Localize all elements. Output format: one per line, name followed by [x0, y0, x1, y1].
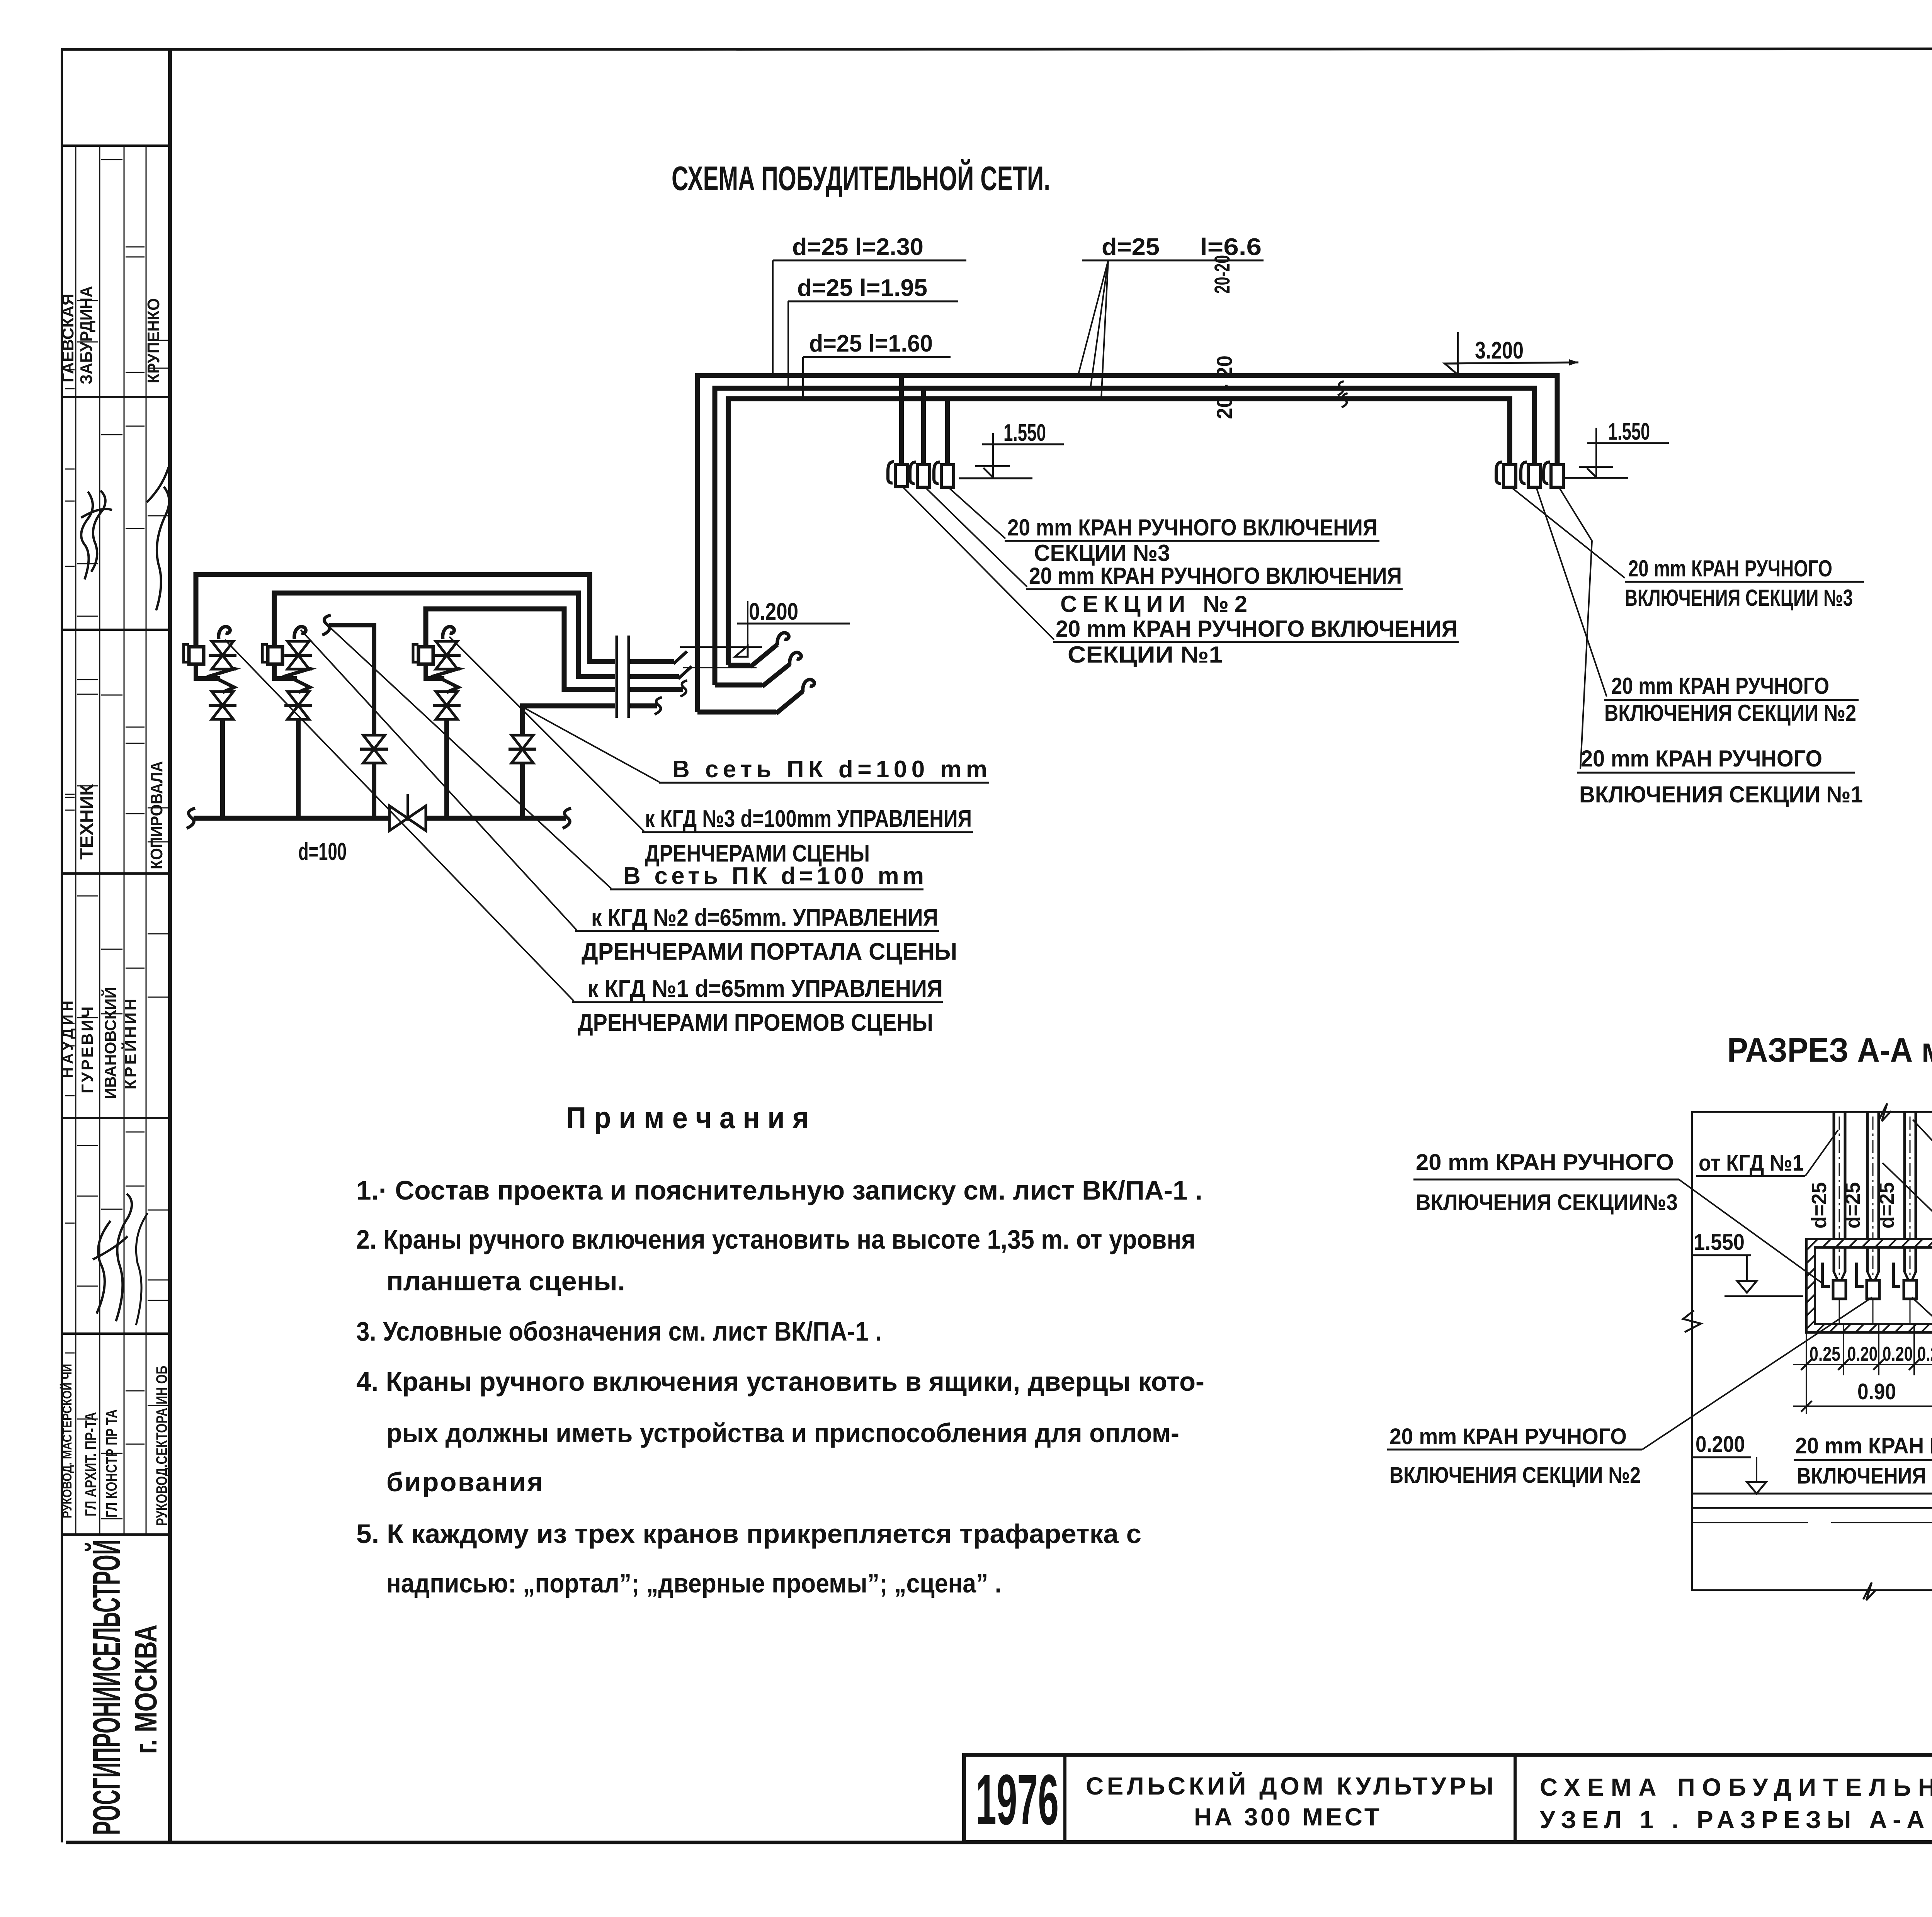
manifold main pipe d=100: [194, 816, 566, 821]
svg-text:ВКЛЮЧЕНИЯ СЕКЦИИ №3: ВКЛЮЧЕНИЯ СЕКЦИИ №3: [1625, 585, 1853, 611]
assembly 3 lower valve: [433, 692, 461, 719]
pipe hook end V2: [715, 683, 762, 688]
pipe A end break tick: [673, 651, 687, 664]
assembly 2 spring zigzag: [287, 666, 310, 692]
svg-text:1.550: 1.550: [1608, 418, 1650, 445]
flange joint line 1: [616, 636, 618, 718]
bottom border line: [66, 1841, 1932, 1844]
svg-text:планшета сцены.: планшета сцены.: [386, 1266, 625, 1296]
pipe C end squiggle: [680, 680, 687, 697]
svg-text:СЕКЦИИ №3: СЕКЦИИ №3: [1034, 540, 1170, 566]
stamp inner column lines: [75, 146, 77, 1535]
svg-text:ЗАБУРДИНА: ЗАБУРДИНА: [77, 286, 96, 384]
title block dividers: [1063, 1755, 1066, 1842]
svg-text:d=25 l=2.30: d=25 l=2.30: [792, 234, 923, 260]
svg-text:ВКЛЮЧЕНИЯ СЕКЦИИ №2: ВКЛЮЧЕНИЯ СЕКЦИИ №2: [1389, 1463, 1641, 1488]
svg-text:СЕКЦИИ №2: СЕКЦИИ №2: [1060, 591, 1247, 617]
manual valve box 2R: [1521, 462, 1541, 487]
svg-text:1976: 1976: [976, 1760, 1059, 1840]
svg-text:к КГД №3 d=100mm УПРАВЛЕНИЯ: к КГД №3 d=100mm УПРАВЛЕНИЯ: [645, 806, 972, 832]
svg-text:1.· Состав проекта и поясни: 1.· Состав проекта и пояснительную запис…: [356, 1175, 1202, 1205]
svg-text:3. Условные обозначения см.: 3. Условные обозначения см. лист ВК/ПА-1…: [356, 1316, 882, 1346]
stamp row dividers: [62, 144, 170, 147]
assembly 3 top curl: [443, 627, 454, 639]
svg-text:СХЕМА ПОБУДИТЕЛЬНОЙ СЕТИ: СХЕМА ПОБУДИТЕЛЬНОЙ СЕТИ: [1540, 1773, 1932, 1801]
svg-text:d=25: d=25: [1875, 1182, 1898, 1229]
middle riser squiggle end: [322, 615, 331, 635]
leader from label to box: [1679, 1179, 1821, 1283]
svg-text:20 mm КРАН РУЧНОГО: 20 mm КРАН РУЧНОГО: [1628, 556, 1832, 581]
assembly 2: drop pipe and fitting box: [268, 647, 282, 664]
leader box2R to label R2: [1536, 488, 1607, 697]
drop pipe 1: [899, 376, 904, 464]
svg-text:20 mm КРАН РУЧНОГО ВКЛЮЧЕНИ: 20 mm КРАН РУЧНОГО ВКЛЮЧЕНИЯ: [1029, 563, 1402, 589]
svg-text:ГЛ АРХИТ. ПР-ТА: ГЛ АРХИТ. ПР-ТА: [82, 1412, 99, 1516]
leader sekcii 2: [1642, 1297, 1872, 1450]
svg-text:0.90: 0.90: [1857, 1379, 1896, 1404]
svg-text:КОПИРОВАЛА: КОПИРОВАЛА: [147, 761, 166, 869]
pipe B to flange: [274, 593, 615, 676]
manual valve box 1: [888, 462, 908, 487]
svg-text:1.550: 1.550: [1694, 1230, 1745, 1255]
leader to v set PK 2: [330, 628, 611, 889]
assembly 1: drop pipe and fitting box: [189, 647, 204, 664]
leader box1 to label secii 1: [903, 488, 1054, 640]
manual valve box 1R: [1496, 462, 1516, 487]
right riser to flange pipe: [522, 706, 615, 818]
svg-text:ДРЕНЧЕРАМИ ПОРТАЛА СЦЕНЫ: ДРЕНЧЕРАМИ ПОРТАЛА СЦЕНЫ: [582, 938, 957, 965]
stamp strip right edge (content frame left): [168, 49, 172, 1842]
manual valve box 3R: [1544, 462, 1563, 487]
stamp signatures row 2: [73, 491, 103, 580]
svg-text:КРУПЕНКО: КРУПЕНКО: [144, 298, 163, 383]
break marks on rect: [1879, 1103, 1891, 1121]
assembly 3 upper valve: [433, 641, 461, 669]
right riser pipe squiggle end: [655, 697, 662, 714]
svg-text:d=25 l=1.95: d=25 l=1.95: [797, 275, 927, 301]
box walls hatched: [1806, 1239, 1932, 1332]
assembly 1 lower valve: [209, 692, 236, 719]
svg-text:ДРЕНЧЕРАМИ ПРОЕМОВ СЦЕНЫ: ДРЕНЧЕРАМИ ПРОЕМОВ СЦЕНЫ: [578, 1009, 933, 1036]
svg-text:СЕКЦИИ №1: СЕКЦИИ №1: [1068, 642, 1223, 668]
assembly 2 upper valve: [284, 641, 312, 669]
middle riser with break: [329, 625, 374, 818]
stamp strip left edge: [61, 49, 63, 1842]
top border line: [61, 49, 1932, 49]
svg-text:d=25: d=25: [1808, 1182, 1831, 1229]
svg-text:ГЛ КОНСТР ПР ТА: ГЛ КОНСТР ПР ТА: [103, 1409, 120, 1518]
svg-text:20 - 20: 20 - 20: [1212, 355, 1236, 419]
leader to v set PK 1: [524, 708, 659, 782]
svg-text:0.200: 0.200: [1696, 1432, 1745, 1457]
assembly 3 spring zigzag: [435, 666, 458, 692]
svg-text:ВКЛЮЧЕНИЯ СЕКЦИИ №1: ВКЛЮЧЕНИЯ СЕКЦИИ №1: [1579, 782, 1863, 807]
pipe B end break tick: [678, 666, 692, 679]
svg-text:РУКОВОД.СЕКТОРА ИН ОБ: РУКОВОД.СЕКТОРА ИН ОБ: [153, 1366, 170, 1526]
hook bracket 3: [1893, 1263, 1900, 1286]
drop pipe 3: [945, 399, 950, 465]
svg-text:d=25: d=25: [1841, 1182, 1864, 1229]
pipe 1 valve: [1833, 1280, 1846, 1299]
assembly 1 top curl: [219, 627, 230, 639]
leader box2 to label secii 2: [925, 488, 1027, 587]
svg-text:0.200: 0.200: [749, 598, 798, 625]
assembly 2 top curl: [294, 627, 306, 639]
assembly 3: drop pipe and fitting box: [418, 647, 433, 664]
svg-text:рых должны иметь устройства: рых должны иметь устройства и приспособл…: [386, 1418, 1179, 1448]
centerlines below valves: [1839, 1299, 1840, 1325]
pipe A after flange: [630, 659, 674, 664]
svg-text:ВКЛЮЧЕНИЯ СЕКЦИИ№3: ВКЛЮЧЕНИЯ СЕКЦИИ№3: [1416, 1190, 1678, 1215]
break squiggle on line 2: [1338, 381, 1344, 395]
svg-text:20 mm КРАН РУЧНОГО ВКЛЮЧ: 20 mm КРАН РУЧНОГО ВКЛЮЧЕНИЯ: [1056, 616, 1458, 642]
middle riser valve: [360, 735, 388, 763]
title block outline: [964, 1755, 1932, 1842]
pipe line 1 top: [697, 376, 1557, 712]
main gate valve on manifold: [389, 806, 408, 831]
assembly 2 riser: [296, 719, 301, 818]
svg-text:надписью: „портал”; „дверные: надписью: „портал”; „дверные проемы”; „с…: [386, 1568, 1002, 1598]
leader to KGD 1: [225, 640, 574, 1001]
thin level line upper: [680, 646, 762, 648]
svg-text:П р и м е ч а н и я: П р и м е ч а н и я: [566, 1101, 809, 1135]
pipe hook end V3: [728, 663, 750, 668]
leader box3 to label secii 3: [949, 488, 1005, 539]
svg-text:0.25: 0.25: [1917, 1343, 1932, 1365]
assembly 2 lower valve: [284, 692, 312, 719]
svg-text:ИВАНОВСКИЙ: ИВАНОВСКИЙ: [101, 987, 119, 1099]
leader box1R to label R3: [1512, 488, 1625, 578]
pipe 2: [1866, 1112, 1869, 1272]
hook bracket 1: [1822, 1263, 1830, 1286]
svg-text:0.20: 0.20: [1847, 1343, 1878, 1365]
svg-text:от КГД №1: от КГД №1: [1699, 1151, 1804, 1176]
leader to KGD 3: [449, 637, 644, 831]
svg-text:4. Краны ручного включения: 4. Краны ручного включения установить в …: [356, 1366, 1204, 1397]
pipe 3: [1903, 1112, 1906, 1272]
pipe 3 valve: [1904, 1280, 1917, 1299]
pipe hook end V1: [697, 710, 776, 715]
svg-text:бирования: бирования: [386, 1467, 543, 1497]
svg-text:d=100: d=100: [298, 838, 347, 865]
flange joint line 2: [628, 636, 630, 718]
break squiggle on line 3: [1342, 393, 1347, 407]
svg-text:0.20: 0.20: [1883, 1343, 1913, 1365]
right riser pipe after flange: [630, 704, 657, 709]
pipe C to flange: [426, 609, 615, 690]
assembly 3 riser: [444, 719, 449, 818]
svg-text:20 mm КРАН РУЧНОГО: 20 mm КРАН РУЧНОГО: [1581, 746, 1822, 772]
svg-text:0.25: 0.25: [1810, 1343, 1840, 1365]
svg-text:20 mm КРАН РУЧНОГО ВКЛЮЧЕНИ: 20 mm КРАН РУЧНОГО ВКЛЮЧЕНИЯ: [1007, 515, 1378, 540]
manual valve box 3: [934, 462, 954, 487]
svg-text:ГАЕВСКАЯ: ГАЕВСКАЯ: [59, 294, 77, 382]
svg-text:5. К каждому из трех кранов: 5. К каждому из трех кранов прикрепляетс…: [356, 1519, 1141, 1549]
svg-text:20 mm КРАН РУЧНОГО: 20 mm КРАН РУЧНОГО: [1389, 1424, 1627, 1449]
svg-text:1.550: 1.550: [1003, 420, 1046, 446]
svg-text:20 mm КРАН РУЧНОГО: 20 mm КРАН РУЧНОГО: [1416, 1150, 1674, 1175]
svg-text:г. МОСКВА: г. МОСКВА: [129, 1625, 163, 1754]
pipe A from manifold corner to flange: [196, 574, 615, 661]
svg-text:2. Краны ручного включения: 2. Краны ручного включения установить на…: [356, 1224, 1196, 1254]
svg-text:d=25: d=25: [1102, 234, 1160, 260]
thin level line lower: [683, 667, 757, 668]
svg-text:20 mm КРАН РУЧНОГО: 20 mm КРАН РУЧНОГО: [1611, 673, 1829, 699]
svg-text:РУКОВОД. МАСТЕРСКОЙ ЧИ: РУКОВОД. МАСТЕРСКОЙ ЧИ: [60, 1364, 74, 1518]
manual valve box 2: [910, 462, 930, 487]
leader to KGD 2: [301, 630, 577, 930]
svg-text:СХЕМА ПОБУДИТЕЛЬНОЙ СЕТИ.: СХЕМА ПОБУДИТЕЛЬНОЙ СЕТИ.: [672, 159, 1050, 197]
pipe line 2: [715, 388, 1534, 685]
stamp signatures row 5: [93, 1221, 128, 1314]
pipe 2 valve: [1867, 1280, 1879, 1299]
svg-text:СЕЛЬСКИЙ ДОМ КУЛЬТУРЫ: СЕЛЬСКИЙ ДОМ КУЛЬТУРЫ: [1086, 1772, 1493, 1800]
svg-text:к КГД №1 d=65mm УПРАВЛЕНИ: к КГД №1 d=65mm УПРАВЛЕНИЯ: [587, 975, 943, 1002]
svg-text:ТЕХНИК: ТЕХНИК: [77, 784, 97, 860]
floor lines: [1692, 1493, 1932, 1495]
svg-text:РАЗРЕЗ А-А м1:25: РАЗРЕЗ А-А м1:25: [1727, 1031, 1932, 1069]
leader box3R to label R1: [1559, 488, 1592, 769]
svg-text:20 mm КРАН РУЧНОГО: 20 mm КРАН РУЧНОГО: [1795, 1433, 1932, 1458]
svg-text:ВКЛЮЧЕНИЯ СЕКЦИИ №2: ВКЛЮЧЕНИЯ СЕКЦИИ №2: [1604, 700, 1856, 726]
fan leader lines to three pipes: [1078, 260, 1108, 376]
pipe 1: [1833, 1112, 1835, 1272]
leader sekcii 1: [1912, 1297, 1932, 1434]
svg-text:ВКЛЮЧЕНИЯ СЕКЦИИ №1: ВКЛЮЧЕНИЯ СЕКЦИИ №1: [1797, 1463, 1932, 1489]
drop pipe 2: [921, 388, 926, 465]
svg-text:d=25 l=1.60: d=25 l=1.60: [809, 330, 933, 357]
svg-text:РОСГИПРОНИИСЕЛЬСТРОЙ: РОСГИПРОНИИСЕЛЬСТРОЙ: [85, 1540, 128, 1835]
assembly 1 upper valve: [209, 641, 236, 669]
hook bracket 2: [1857, 1263, 1864, 1286]
assembly 1 spring zigzag: [211, 666, 234, 692]
svg-text:НА 300 МЕСТ: НА 300 МЕСТ: [1194, 1803, 1379, 1831]
svg-text:20-20: 20-20: [1210, 255, 1234, 294]
manifold end squiggle left: [187, 808, 195, 828]
right riser valve: [509, 735, 536, 763]
svg-text:3.200: 3.200: [1475, 337, 1524, 364]
bottom dims of box: [1806, 1332, 1807, 1375]
manifold end squiggle right: [563, 808, 571, 828]
svg-text:к КГД №2 d=65mm. УПРАВЛЕНИЯ: к КГД №2 d=65mm. УПРАВЛЕНИЯ: [591, 904, 938, 931]
stamp cell rule dashes: [65, 388, 75, 389]
dim 0.90: [1806, 1375, 1807, 1414]
outer rect: [1692, 1112, 1932, 1590]
assembly 1 riser: [220, 719, 225, 818]
pipe B after flange: [630, 674, 679, 679]
pipe C after flange: [630, 687, 683, 692]
pipe line 3: [728, 399, 1510, 665]
